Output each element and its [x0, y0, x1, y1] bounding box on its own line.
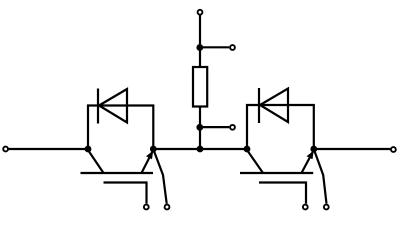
wire: diode D1 loop (collector up, across, down to emitter): [88, 106, 153, 150]
wire: Q1 auxiliary emitter: [154, 151, 167, 204]
transistor Q2 emitter arrow: [307, 151, 314, 160]
terminal: top center: [198, 10, 203, 15]
wire: mid node down to bus center node: [199, 127, 201, 149]
transistor Q1 emitter diagonal: [142, 151, 154, 174]
wire: Q1 gate line: [104, 183, 147, 204]
terminal: left bus terminal: [3, 147, 8, 152]
wire: resistor to mid node: [199, 107, 201, 128]
transistor Q1 emitter arrow: [146, 151, 153, 160]
wire: upper node to upper right terminal: [200, 46, 229, 48]
terminal: right bus terminal: [391, 147, 396, 152]
node: Q2 collector junction: [244, 146, 251, 153]
terminal: upper right: [230, 45, 235, 50]
terminal: Q2 auxiliary emitter: [324, 205, 329, 210]
diode D1 triangle: [99, 89, 127, 123]
wire: Q2 auxiliary emitter: [314, 151, 326, 204]
wire: Q2 emitter to right terminal: [314, 148, 391, 150]
node: upper junction: [196, 44, 203, 51]
wire: mid node to mid right terminal: [200, 126, 229, 128]
node: bus center junction: [197, 146, 204, 153]
transistor Q2 body bar: [240, 172, 313, 174]
wire: left terminal to Q1 collector: [9, 148, 88, 150]
resistor R1: [193, 67, 207, 107]
wire: diode D2 loop: [247, 105, 314, 149]
node: Q2 emitter junction: [310, 146, 317, 153]
wire: center node to Q2 collector: [200, 148, 247, 150]
node: Q1 emitter junction: [150, 146, 157, 153]
terminal: Q1 gate: [144, 205, 149, 210]
diode D2 cathode bar: [258, 88, 260, 123]
transistor Q1 collector diagonal: [88, 150, 104, 173]
terminal: Q2 gate: [303, 205, 308, 210]
diode D2 triangle: [260, 89, 288, 123]
wire: Q1 emitter to center node: [153, 148, 200, 150]
wire: upper node to resistor: [199, 48, 201, 68]
terminal: Q1 auxiliary emitter: [165, 205, 170, 210]
diode D1 cathode bar: [97, 89, 99, 124]
transistor Q2 collector diagonal: [247, 150, 263, 173]
transistor Q1 body bar: [81, 172, 154, 174]
node: Q1 collector junction: [85, 146, 92, 153]
wire: Q2 gate line: [259, 183, 306, 204]
terminal: mid right: [230, 125, 235, 130]
node: mid junction: [196, 124, 203, 131]
transistor Q2 emitter diagonal: [302, 151, 314, 174]
wire: top terminal down to upper node: [199, 15, 201, 47]
